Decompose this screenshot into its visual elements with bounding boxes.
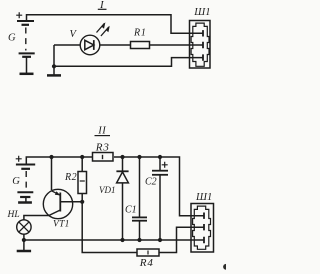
svg-text:R3: R3 (95, 142, 110, 154)
svg-text:C2: C2 (145, 177, 157, 188)
svg-text:II: II (97, 126, 106, 137)
svg-text:Ш1: Ш1 (193, 7, 210, 18)
svg-text:R4: R4 (139, 257, 154, 269)
svg-text:VT1: VT1 (53, 220, 70, 230)
svg-text:G: G (8, 33, 16, 44)
svg-text:G: G (12, 176, 20, 187)
svg-text:VD1: VD1 (99, 185, 116, 195)
svg-text:R2: R2 (64, 172, 77, 183)
svg-text:HL: HL (7, 210, 20, 220)
svg-text:V: V (70, 29, 78, 40)
svg-text:Ш1: Ш1 (195, 192, 212, 203)
svg-text:C1: C1 (125, 205, 137, 216)
svg-text:R1: R1 (133, 28, 147, 39)
